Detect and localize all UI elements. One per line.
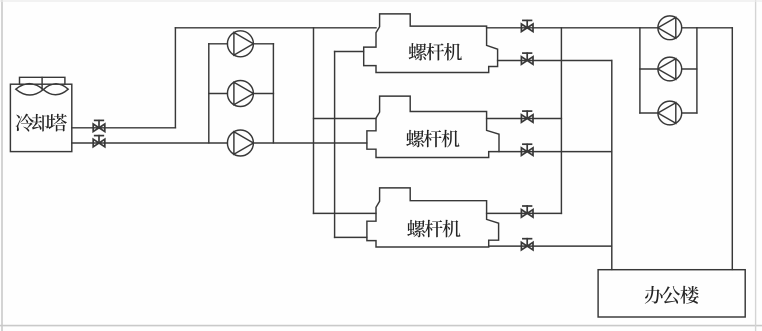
wire right pump manifold right <box>696 28 698 113</box>
wire chiller3 upper-right pipe <box>487 212 562 214</box>
chiller U1 outline <box>364 14 498 73</box>
pump P4 <box>658 16 682 40</box>
cooling tower fan cap <box>20 77 65 84</box>
wire pump P6 row <box>640 112 658 114</box>
label 螺杆机 U1 <box>409 43 462 61</box>
wire manifold A <box>313 28 315 214</box>
wire left pump manifold right <box>272 44 274 143</box>
wire chiller2 upper-left pipe <box>314 118 377 120</box>
valve V7 chiller3 upper <box>521 206 533 217</box>
valve V8 chiller3 lower <box>521 239 533 250</box>
label 螺杆机 U2 <box>406 130 459 148</box>
wire pump P5 row <box>640 68 658 70</box>
pump P1 <box>227 31 253 57</box>
cooling tower fan blade left <box>16 84 44 95</box>
wire right pump manifold left <box>639 28 641 113</box>
wire tower riser <box>174 28 176 128</box>
valve V3 chiller1 upper <box>521 20 533 31</box>
label 冷却塔 <box>16 114 67 132</box>
label 办公楼 <box>645 286 699 304</box>
wire pump P1 row <box>209 43 228 45</box>
wire chiller1 lower-right pipe <box>498 60 612 62</box>
pump P2 <box>227 81 253 107</box>
wire chiller2 upper-right pipe <box>487 118 562 120</box>
valve V4 chiller1 lower <box>521 53 533 64</box>
wire tower lower pipe <box>72 142 228 144</box>
wire chiller2 lower-right pipe <box>499 151 612 153</box>
wire pump P2 row <box>209 93 228 95</box>
wire manifold B <box>334 52 336 238</box>
chiller U3 outline <box>367 188 499 247</box>
pump P6 <box>658 101 682 125</box>
wire chiller3 upper-left pipe <box>314 212 377 214</box>
pump P3 <box>227 130 253 156</box>
chiller U2 outline <box>367 96 499 157</box>
pump P5 <box>658 57 682 81</box>
wire top header left <box>175 27 376 29</box>
wire supply riser x561 <box>560 28 562 214</box>
cooling tower fan shaft <box>41 77 43 89</box>
valve V1 tower upper <box>93 120 105 131</box>
wire return riser x612 <box>611 61 613 270</box>
label 螺杆机 U3 <box>407 220 460 238</box>
wire chiller1 lower-left pipe <box>335 51 364 53</box>
wire condenser line to chiller 2 <box>253 142 367 144</box>
cooling tower body <box>10 84 71 151</box>
wire tower upper pipe <box>72 127 176 129</box>
valve V6 chiller2 lower <box>521 144 533 155</box>
wire left pump manifold left <box>208 44 210 143</box>
wire chiller3 lower-left pipe <box>335 236 367 238</box>
wire building supply drop <box>731 28 733 270</box>
cooling tower fan blade right <box>43 84 68 95</box>
wire chiller3 lower-right pipe <box>489 245 612 247</box>
valve V5 chiller2 upper <box>521 111 533 122</box>
office building <box>598 270 745 317</box>
valve V2 tower lower <box>93 136 105 147</box>
wire chilled supply header <box>487 27 658 29</box>
